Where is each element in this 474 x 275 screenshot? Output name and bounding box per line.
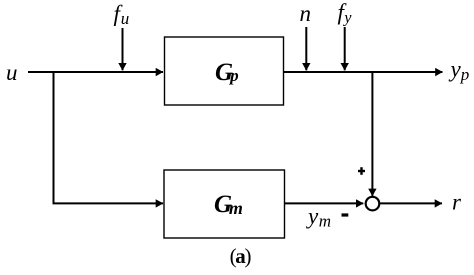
block Gm [164,170,285,238]
svg-text:ym: ym [306,204,331,231]
wire Gp output to y_p [284,71,443,73]
svg-text:(a): (a) [230,244,252,268]
plus sign at summing junction [358,167,365,175]
svg-text:fy: fy [338,0,353,26]
svg-text:fu: fu [114,1,130,28]
minus sign at summing junction [342,213,349,216]
arrow f_y into wire [344,27,346,70]
wire summing junction to r [380,202,442,204]
svg-text:n: n [300,1,312,26]
wire branch u down and to Gm input [54,71,164,203]
svg-text:yp: yp [449,57,470,84]
wire branch y_p down into summing junction [371,71,373,196]
wire Gm output to summing junction [285,202,364,204]
wire u to Gp input [28,71,163,73]
arrow n into wire [305,27,307,70]
svg-text:r: r [452,190,462,215]
block Gp [165,37,284,105]
arrow f_u into wire [122,28,124,70]
svg-text:u: u [6,60,18,85]
summing junction circle [366,197,380,211]
